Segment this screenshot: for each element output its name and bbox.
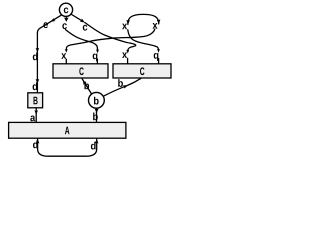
box C right [113, 64, 171, 78]
circle node c [59, 3, 72, 16]
box C left [53, 64, 108, 78]
arrowhead d lower [33, 79, 40, 90]
arrow b to left C box [82, 78, 92, 94]
arc below box A with two d arrows [33, 139, 99, 156]
circle node b [89, 92, 105, 108]
wire diagonal c hairpin to right C box x entry [85, 23, 136, 64]
wire from right x node to left C box x entry [61, 29, 155, 63]
arrow b to right C box [103, 78, 140, 96]
arrow c diagonal from circle c [71, 14, 88, 31]
box B [28, 93, 43, 108]
arrow a from B to A [30, 108, 38, 122]
arrowhead d upper [33, 48, 39, 60]
arrow e from circle c [37, 15, 61, 33]
arrow c below circle c [62, 16, 68, 29]
wire from left x node to right C box q entry [128, 30, 160, 64]
wire from c node to left C box q entry [66, 30, 100, 64]
top arc between x nodes [122, 14, 160, 29]
box A [9, 122, 126, 138]
wire left vertical to box B [36, 33, 38, 93]
arrow b to box A [93, 108, 98, 122]
